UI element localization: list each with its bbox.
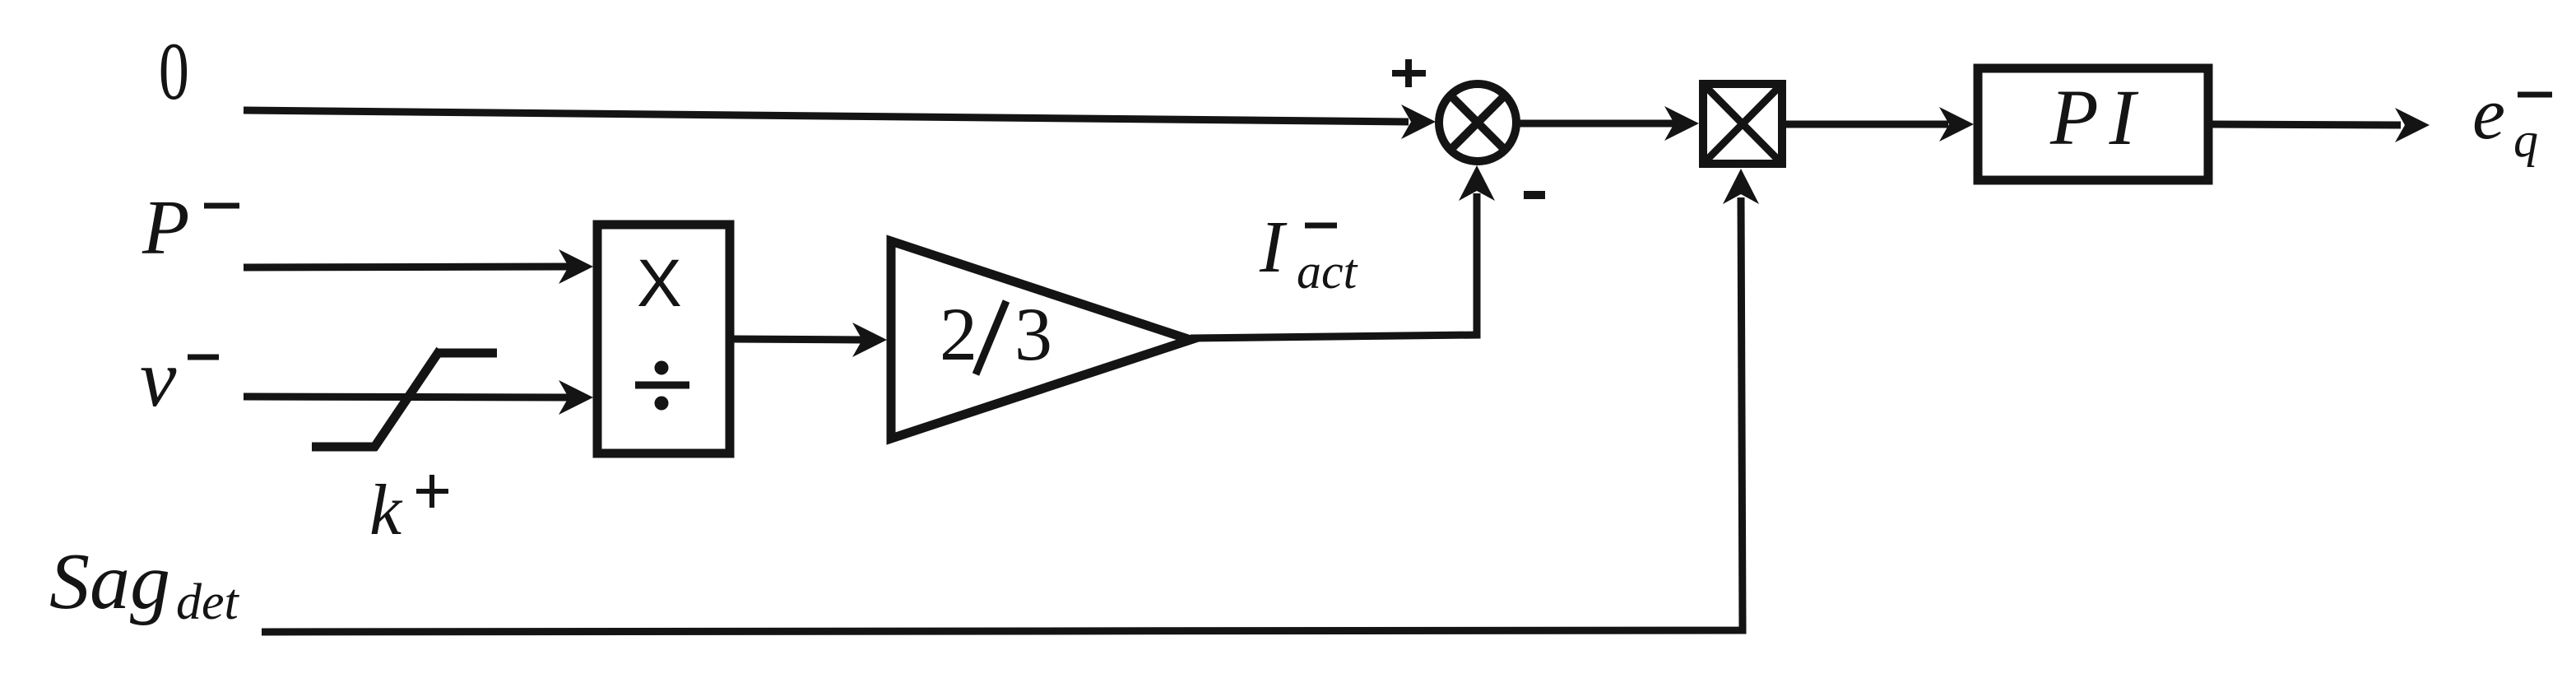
svg-text:Sag: Sag (49, 537, 170, 626)
svg-text:q: q (2513, 113, 2538, 167)
svg-text:I: I (1259, 207, 1288, 288)
multiply-divide block (X over division) (597, 225, 730, 453)
svg-text:3: 3 (1014, 292, 1052, 376)
svg-text:v: v (140, 332, 177, 424)
arrowhead into multiplier (1664, 106, 1699, 141)
arrowhead into summing junction (1401, 104, 1436, 139)
arrowhead up into multiplier (1723, 169, 1759, 204)
arrowhead into PI block (1939, 107, 1974, 142)
gain triangle 2/3 (891, 241, 1191, 439)
wire P- to multiply-divide box (244, 267, 569, 267)
svg-text:0: 0 (159, 26, 189, 117)
plus sign at summing junction (1392, 59, 1426, 87)
svg-text:e: e (2472, 73, 2505, 155)
wire box to gain triangle (734, 339, 862, 340)
svg-text:k: k (369, 471, 403, 550)
wire summing junction to multiplier (1516, 120, 1674, 128)
wire multiplier to PI block (1786, 121, 1948, 128)
wire 0 to summing junction (244, 110, 1409, 122)
wire PI to output (2212, 124, 2401, 125)
wire Sag_det to multiplier (bottom, long) (262, 197, 1743, 632)
summing junction circle with X (1439, 84, 1516, 161)
PI block (1978, 68, 2208, 180)
arrowhead into multiply-divide box top input (559, 249, 593, 284)
wire v- to multiply-divide box (244, 397, 569, 397)
minus sign at summing junction (1524, 191, 1545, 199)
output arrowhead (2395, 108, 2430, 142)
saturation (limiter) symbol on v- wire (312, 350, 497, 448)
division symbol inside block (635, 382, 689, 389)
svg-text:X: X (637, 246, 682, 321)
arrowhead up into summing junction (1459, 165, 1495, 201)
svg-text:PI: PI (2049, 73, 2147, 161)
svg-text:2: 2 (940, 292, 977, 376)
arrowhead into multiply-divide box bottom input (559, 380, 593, 415)
multiplier block (box with X) (1703, 84, 1782, 164)
arrowhead into gain triangle (852, 323, 887, 357)
wire triangle apex to corner below summing junction (1191, 193, 1477, 338)
svg-text:det: det (176, 574, 240, 630)
svg-text:P: P (142, 185, 189, 271)
svg-text:act: act (1297, 244, 1358, 299)
